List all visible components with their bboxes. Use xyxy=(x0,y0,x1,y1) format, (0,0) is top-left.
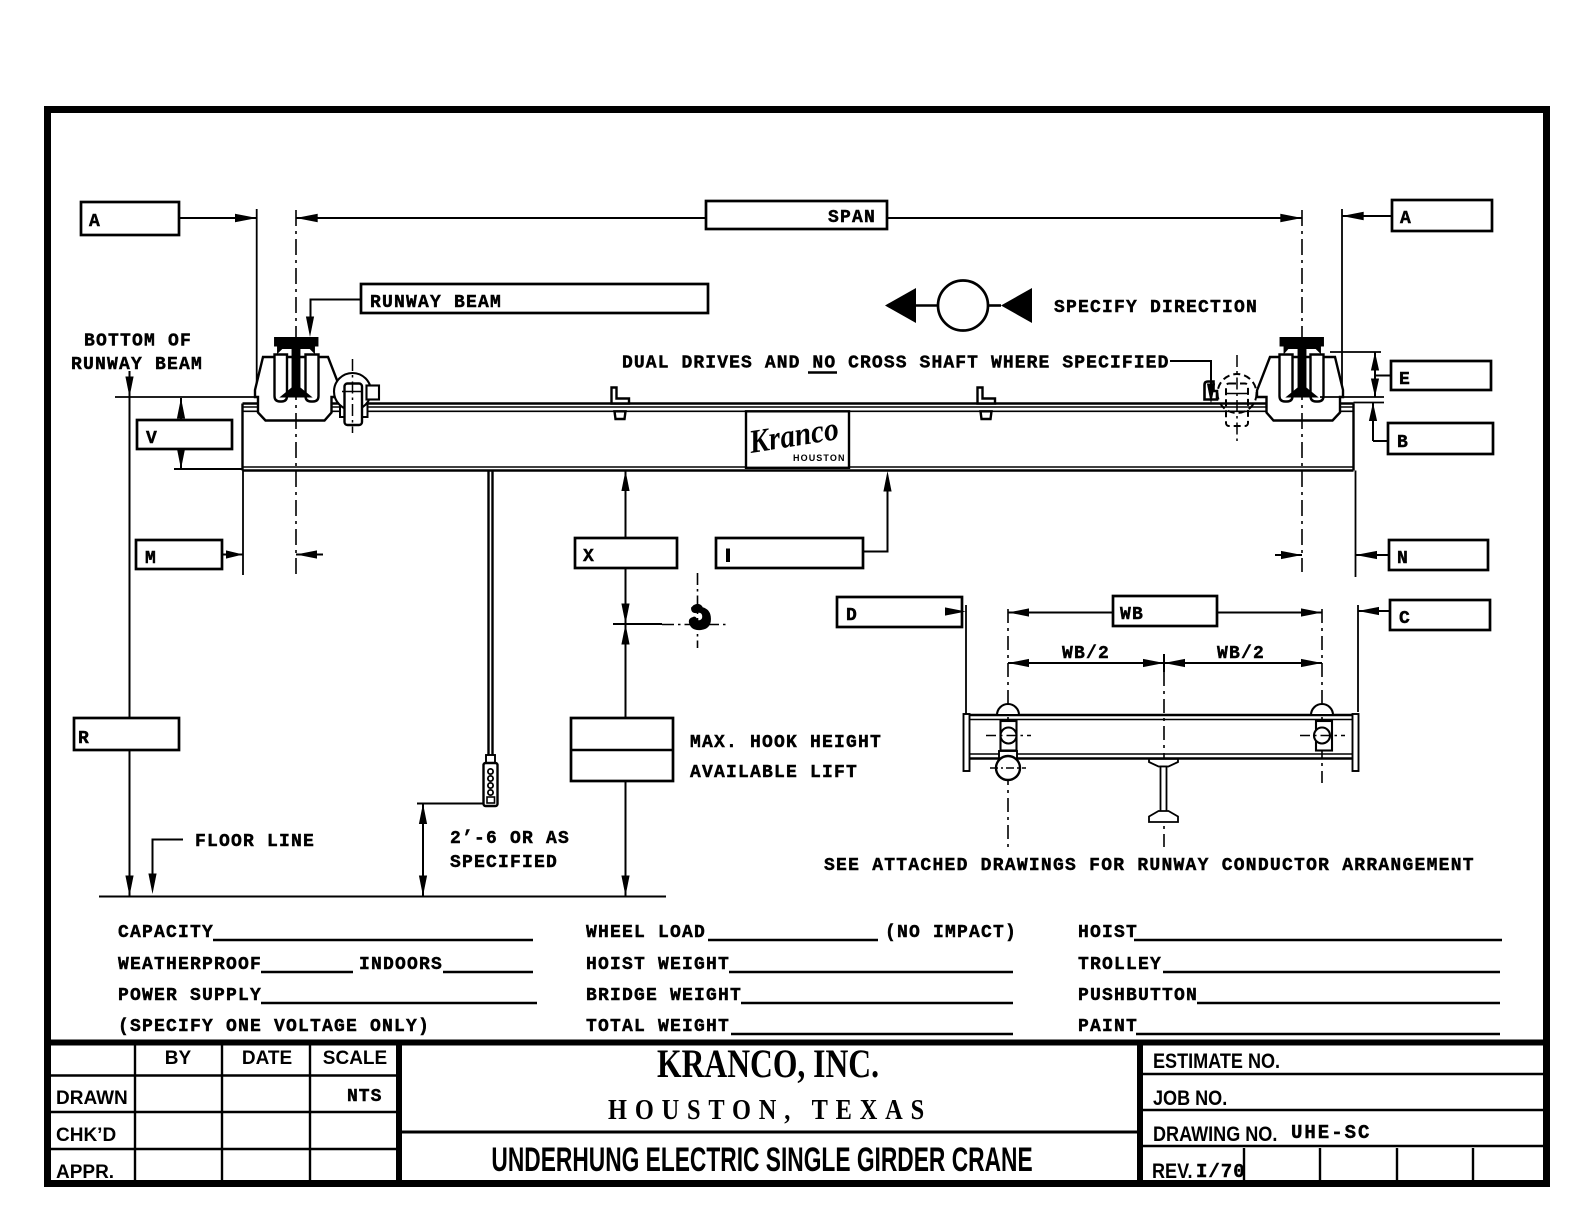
B arrowhead up xyxy=(1369,403,1377,422)
WB arrowhead left xyxy=(1008,608,1029,616)
left drive gearbox side flange left xyxy=(340,399,346,418)
specify direction circle xyxy=(938,281,988,331)
V upper arrowhead xyxy=(177,398,185,419)
label 1 connector arrowhead xyxy=(883,471,891,492)
C dim line xyxy=(1358,610,1390,612)
pendant button 2 xyxy=(488,776,493,781)
specify direction left link line xyxy=(916,304,938,307)
svg-text:V: V xyxy=(146,429,157,449)
trolley left end plate xyxy=(964,714,970,771)
rev row tick 2 xyxy=(1319,1148,1321,1183)
left table column line 2 xyxy=(221,1042,223,1184)
girder bottom edge line xyxy=(243,469,1354,472)
dim box SPAN xyxy=(706,201,887,229)
girder bottom inner line xyxy=(243,466,1354,468)
svg-text:DUAL DRIVES AND NO CROSS SHAFT: DUAL DRIVES AND NO CROSS SHAFT WHERE SPE… xyxy=(622,354,1169,374)
runway beam leader arrowhead xyxy=(306,317,314,338)
cross shaft lower line xyxy=(243,410,1354,412)
svg-text:HOUSTON: HOUSTON xyxy=(793,453,846,463)
pendant drop arrowhead up xyxy=(419,804,427,825)
runway beam leader line xyxy=(311,300,362,323)
dim box WB xyxy=(1113,596,1217,626)
svg-text:RUNWAY BEAM: RUNWAY BEAM xyxy=(370,293,502,313)
underline under NO xyxy=(808,371,837,373)
E dimension vertical line xyxy=(1374,352,1376,397)
dim box C xyxy=(1390,600,1490,630)
right end truck body xyxy=(1257,357,1343,421)
left runway beam T section xyxy=(275,338,318,397)
svg-text:RUNWAY BEAM: RUNWAY BEAM xyxy=(71,355,203,375)
right runway centerline xyxy=(1301,210,1303,572)
pendant button 1 xyxy=(488,769,493,774)
D arrowhead right xyxy=(945,607,966,615)
C arrowhead left xyxy=(1358,607,1379,615)
dim box R xyxy=(74,718,179,750)
svg-text:DATE: DATE xyxy=(242,1048,292,1069)
dim line A left xyxy=(179,217,257,219)
V upper arrow line xyxy=(180,398,182,420)
dim line SPAN left xyxy=(296,217,706,219)
pendant drop arrowhead down xyxy=(419,876,427,897)
svg-text:SPECIFIED: SPECIFIED xyxy=(450,853,558,873)
svg-text:B: B xyxy=(1397,433,1408,453)
hoist weight blank line xyxy=(729,971,1013,973)
right wheel crosshair xyxy=(1300,735,1345,737)
right dual drive crosshair tick xyxy=(1226,393,1248,395)
arrowhead SPAN left xyxy=(296,214,318,222)
left end truck body xyxy=(255,357,341,421)
cross shaft upper line xyxy=(243,406,1354,408)
left wheel crosshair xyxy=(986,735,1031,737)
trolley frame bottom edge xyxy=(965,757,1358,760)
rev row tick 1 xyxy=(1243,1148,1245,1183)
svg-text:APPR.: APPR. xyxy=(56,1162,114,1183)
left drive gearbox side flange right xyxy=(361,399,368,418)
R dimension vertical line xyxy=(129,371,131,896)
svg-text:HOUSTON, TEXAS: HOUSTON, TEXAS xyxy=(608,1094,932,1125)
left drive centerline xyxy=(352,359,354,433)
arrowhead R at floor xyxy=(125,876,133,897)
left table row line 2 xyxy=(44,1111,399,1113)
trolley right extension line xyxy=(1357,605,1359,712)
dim box A right xyxy=(1392,200,1492,231)
svg-text:INDOORS: INDOORS xyxy=(359,955,443,975)
right runway beam T section xyxy=(1281,338,1324,397)
floor line leader xyxy=(153,840,184,879)
svg-text:CAPACITY: CAPACITY xyxy=(118,923,214,943)
svg-text:WB: WB xyxy=(1120,605,1144,625)
hoist blank line xyxy=(1134,939,1502,941)
left drive small end box xyxy=(367,386,380,400)
pendant neck xyxy=(486,755,495,763)
arrowhead A right xyxy=(1342,212,1364,220)
girder section top flange xyxy=(1149,759,1178,767)
svg-text:R: R xyxy=(78,729,89,749)
svg-text:BOTTOM OF: BOTTOM OF xyxy=(84,332,192,352)
pendant drop tick line xyxy=(417,803,484,805)
left end truck left wheel channel xyxy=(275,355,288,402)
dim box A left xyxy=(81,202,179,235)
dim box N xyxy=(1389,540,1488,570)
B dimension vertical line xyxy=(1372,403,1374,442)
hook level tick line xyxy=(613,623,662,625)
left table column line 3 xyxy=(309,1042,311,1184)
E extension line top xyxy=(1330,351,1381,353)
dim box D xyxy=(837,597,962,627)
M arrowhead right xyxy=(226,550,243,558)
B extension line girder top xyxy=(1354,402,1385,404)
svg-text:(NO IMPACT): (NO IMPACT) xyxy=(885,923,1017,943)
trolley left extension line xyxy=(965,605,967,714)
girder section web xyxy=(1161,767,1167,813)
svg-text:UHE-SC: UHE-SC xyxy=(1291,1122,1371,1144)
left drive gearbox body xyxy=(345,384,363,426)
svg-text:MAX. HOOK HEIGHT: MAX. HOOK HEIGHT xyxy=(690,733,882,753)
label box RUNWAY BEAM xyxy=(361,284,708,313)
hook height arrowhead down at floor xyxy=(621,876,629,897)
power supply blank line xyxy=(261,1002,537,1004)
WB/2 left arrowhead at wheel xyxy=(1008,659,1029,667)
svg-text:JOB NO.: JOB NO. xyxy=(1153,1087,1227,1111)
svg-text:E: E xyxy=(1399,370,1410,390)
conductor hanger bracket 2 lower tab xyxy=(981,411,992,419)
right dual drive dashed gearbox xyxy=(1226,384,1248,427)
right dual drive dashed motor circle xyxy=(1218,374,1257,413)
pendant station body xyxy=(484,763,498,806)
svg-text:WB/2: WB/2 xyxy=(1062,644,1110,664)
N arrowhead right at centerline xyxy=(1281,551,1302,559)
MAX HOOK box divider xyxy=(571,749,673,751)
dim box X xyxy=(575,538,677,568)
weatherproof blank line xyxy=(261,971,353,973)
X arrowhead down at hook level xyxy=(621,604,629,625)
hoist trolley wheel xyxy=(996,756,1020,780)
left runway centerline xyxy=(295,210,297,575)
left bumper hump xyxy=(997,704,1019,715)
right dual drive solid bracket xyxy=(1205,382,1218,400)
svg-text:D: D xyxy=(846,606,857,626)
wheel load blank line xyxy=(708,939,878,941)
girder left end extension line xyxy=(242,471,244,576)
E lower arrowhead xyxy=(1371,379,1379,398)
svg-text:DRAWING NO.: DRAWING NO. xyxy=(1153,1123,1277,1147)
svg-text:2’-6 OR AS: 2’-6 OR AS xyxy=(450,829,570,849)
floor line xyxy=(99,896,666,898)
bottom of runway beam reference line xyxy=(115,396,255,398)
right dual drive centerline xyxy=(1236,355,1238,445)
pendant bottom plate xyxy=(487,797,495,803)
paint blank line xyxy=(1136,1033,1500,1035)
svg-text:KRANCO, INC.: KRANCO, INC. xyxy=(657,1041,879,1085)
WB/2 dim line left xyxy=(1008,662,1164,664)
svg-text:SCALE: SCALE xyxy=(323,1048,387,1069)
extension line left truck edge xyxy=(256,209,258,384)
B leader to box xyxy=(1373,440,1388,442)
right wheel block xyxy=(1316,721,1332,751)
pushbutton pendant cable left line xyxy=(487,471,489,757)
pushbutton pendant cable right line xyxy=(491,471,493,757)
svg-text:BRIDGE WEIGHT: BRIDGE WEIGHT xyxy=(586,986,742,1006)
hook symbol xyxy=(690,605,710,629)
trolley frame top edge xyxy=(965,714,1358,717)
svg-text:TOTAL WEIGHT: TOTAL WEIGHT xyxy=(586,1017,730,1037)
svg-text:SEE ATTACHED DRAWINGS FOR RUNW: SEE ATTACHED DRAWINGS FOR RUNWAY CONDUCT… xyxy=(824,856,1475,876)
right wheel circle xyxy=(1314,728,1330,744)
girder right end line xyxy=(1352,404,1354,471)
svg-text:UNDERHUNG ELECTRIC SINGLE GIRD: UNDERHUNG ELECTRIC SINGLE GIRDER CRANE xyxy=(491,1141,1032,1179)
dim box B xyxy=(1388,423,1493,454)
right wheel centerline xyxy=(1321,609,1323,783)
capacity blank line xyxy=(213,939,533,941)
svg-text:PUSHBUTTON: PUSHBUTTON xyxy=(1078,986,1198,1006)
bridge weight blank line xyxy=(741,1002,1013,1004)
svg-text:WB/2: WB/2 xyxy=(1217,644,1265,664)
specify direction right link line xyxy=(988,304,1001,307)
hook centerline vertical xyxy=(697,573,699,648)
svg-text:WEATHERPROOF: WEATHERPROOF xyxy=(118,955,262,975)
specify direction left arrowhead xyxy=(885,288,916,323)
svg-text:A: A xyxy=(89,212,100,232)
svg-text:WHEEL LOAD: WHEEL LOAD xyxy=(586,923,706,943)
rev row tick 4 xyxy=(1472,1148,1474,1183)
total weight blank line xyxy=(731,1033,1013,1035)
svg-text:SPAN: SPAN xyxy=(828,208,876,228)
svg-text:BY: BY xyxy=(165,1048,192,1069)
trolley right end plate xyxy=(1353,714,1359,771)
svg-text:M: M xyxy=(145,549,156,569)
right bumper hump xyxy=(1311,704,1333,715)
right end truck left wheel channel xyxy=(1280,355,1293,402)
title block top thick line xyxy=(44,1040,1550,1046)
left drive crosshair tick xyxy=(342,391,363,393)
WB arrowhead right xyxy=(1301,608,1322,616)
E upper arrowhead xyxy=(1371,352,1379,371)
arrowhead SPAN right xyxy=(1280,214,1302,222)
svg-text:AVAILABLE LIFT: AVAILABLE LIFT xyxy=(690,763,858,783)
right block row line 2 xyxy=(1143,1109,1547,1111)
trolley blank line xyxy=(1163,971,1500,973)
left table row line 3 xyxy=(44,1148,399,1150)
svg-text:REV.: REV. xyxy=(1152,1160,1192,1184)
trolley frame bottom inner line xyxy=(968,753,1355,755)
girder left end line xyxy=(241,404,243,471)
svg-text:TROLLEY: TROLLEY xyxy=(1078,955,1162,975)
dual drives leader arrowhead xyxy=(1207,384,1215,405)
svg-text:FLOOR LINE: FLOOR LINE xyxy=(195,832,315,852)
WB/2 arrowhead right at center xyxy=(1143,659,1164,667)
right block row line 3 xyxy=(1143,1145,1547,1147)
left wheel circle xyxy=(1001,728,1017,744)
girder section bottom flange xyxy=(1149,811,1178,822)
dim box M xyxy=(136,540,222,569)
pendant button 4 xyxy=(488,790,493,795)
svg-text:HOIST: HOIST xyxy=(1078,923,1138,943)
hoist wheel crosshair xyxy=(990,767,1026,769)
X hook dimension vertical line xyxy=(625,471,627,897)
title block right thick divider xyxy=(1137,1040,1143,1184)
trolley center tick xyxy=(1163,654,1165,672)
E extension line bottom xyxy=(1320,396,1384,398)
M arrowhead left at centerline xyxy=(296,550,317,558)
svg-text:POWER SUPPLY: POWER SUPPLY xyxy=(118,986,262,1006)
svg-text:A: A xyxy=(1400,209,1411,229)
svg-text:NTS: NTS xyxy=(347,1087,382,1107)
svg-text:DRAWN: DRAWN xyxy=(56,1088,128,1109)
pendant drop dimension line xyxy=(422,804,424,897)
svg-text:ESTIMATE NO.: ESTIMATE NO. xyxy=(1153,1050,1280,1074)
center block divider line xyxy=(402,1131,1137,1134)
indoors blank line xyxy=(443,971,533,973)
left table column line 1 xyxy=(134,1042,136,1184)
WB/2 arrowhead left at center xyxy=(1164,659,1185,667)
label box 1 glyph xyxy=(726,549,730,563)
conductor hanger bracket 1 stem xyxy=(612,388,630,404)
rev row tick 3 xyxy=(1396,1148,1398,1183)
dual drives leader line xyxy=(1170,361,1211,389)
N arrowhead left at girder end xyxy=(1356,551,1378,559)
left table row line 1 xyxy=(44,1074,399,1076)
floor line leader arrowhead xyxy=(148,874,156,895)
svg-text:N: N xyxy=(1397,549,1408,569)
specify direction right arrowhead xyxy=(1001,288,1032,323)
label 1 connector line xyxy=(863,487,888,552)
extension line right truck edge xyxy=(1341,209,1343,385)
WB/2 dim line right xyxy=(1164,662,1322,664)
dim line A right xyxy=(1342,215,1392,217)
hoist trolley bracket xyxy=(999,751,1017,760)
label box 1 xyxy=(716,538,863,568)
svg-text:CHK’D: CHK’D xyxy=(56,1125,116,1146)
arrowhead at bottom of runway line xyxy=(125,377,133,398)
N centerline tail xyxy=(1275,554,1302,556)
svg-text:I/70: I/70 xyxy=(1196,1161,1246,1183)
svg-text:X: X xyxy=(583,547,594,567)
svg-text:C: C xyxy=(1399,609,1410,629)
bridge girder top edge line xyxy=(243,402,1354,405)
right block row line 1 xyxy=(1143,1073,1547,1075)
V lower arrowhead xyxy=(177,449,185,470)
right end truck right wheel channel xyxy=(1311,355,1324,402)
hook level dash-dot line to hook xyxy=(662,624,726,626)
M arrow line to girder end xyxy=(222,554,243,556)
dim box V xyxy=(137,420,232,449)
E leader to box xyxy=(1375,375,1391,377)
svg-text:PAINT: PAINT xyxy=(1078,1017,1138,1037)
X arrowhead up at girder bottom xyxy=(621,471,629,492)
svg-text:(SPECIFY ONE VOLTAGE ONLY): (SPECIFY ONE VOLTAGE ONLY) xyxy=(118,1017,430,1037)
girder right end extension line xyxy=(1355,471,1357,578)
trolley girder centerline xyxy=(1163,672,1165,847)
left wheel block xyxy=(1001,721,1017,751)
dim line SPAN right xyxy=(887,217,1302,219)
N arrow line from box xyxy=(1356,554,1390,556)
svg-text:SPECIFY DIRECTION: SPECIFY DIRECTION xyxy=(1054,298,1258,318)
V lower arrow line xyxy=(180,449,182,469)
WB/2 right arrowhead at wheel xyxy=(1301,659,1322,667)
title block left thick divider xyxy=(396,1040,402,1184)
dim box E xyxy=(1391,361,1491,390)
left wheel centerline xyxy=(1007,609,1009,847)
left end truck right wheel channel xyxy=(306,355,319,402)
pushbutton blank line xyxy=(1197,1002,1500,1004)
svg-text:HOIST WEIGHT: HOIST WEIGHT xyxy=(586,955,730,975)
dim box MAX HOOK HEIGHT xyxy=(571,718,673,781)
WB dim line left xyxy=(1008,612,1113,614)
pendant button 3 xyxy=(488,783,493,788)
WB dim line right xyxy=(1217,612,1322,614)
left drive motor circle xyxy=(334,373,371,410)
girder bottom reference line left xyxy=(174,468,243,470)
M centerline tail xyxy=(296,554,323,556)
arrowhead A left xyxy=(235,214,257,222)
trolley frame top inner line xyxy=(968,719,1355,721)
conductor hanger bracket 2 stem xyxy=(978,388,996,404)
Kranco logo plate on girder xyxy=(746,411,849,468)
conductor hanger bracket 1 lower tab xyxy=(615,411,626,419)
hook height arrowhead up below hook level xyxy=(621,624,629,645)
